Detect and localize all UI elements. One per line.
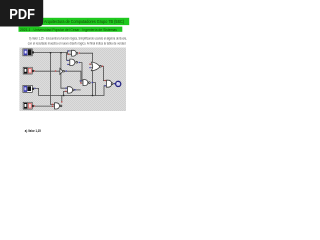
page background (0, 0, 149, 198)
wire U1 input pin fork (68, 51, 72, 54)
wire V1 bus from W1 down to gate U6 top input (50, 53, 54, 105)
not gate U3 (60, 68, 65, 74)
wire riser from net to U4 bottom input (91, 68, 94, 96)
pin state ticks U6 (52, 104, 53, 105)
wire U1 output to U4 top input (80, 53, 93, 64)
pin state ticks U4 inputs (89, 64, 90, 65)
green title bar 1 (19, 18, 130, 25)
wire W1 from input IN1 (34, 52, 68, 54)
pin state tick U3 input (55, 70, 56, 71)
pin state ticks U7 inputs (80, 80, 81, 81)
wire U3 output to U7 bottom input (64, 71, 83, 83)
wire U2 output to U7 top input (80, 63, 82, 81)
nand gate U8 final (106, 80, 115, 87)
wire V2 bus from W1 down to gate U5 top input (61, 53, 68, 89)
svg-text:b) Valor 1,25 - Encuentra la f: b) Valor 1,25 - Encuentra la función lóg… (29, 37, 127, 41)
pin state ticks U5 (66, 88, 67, 89)
svg-text:con el resultado muestra el nu: con el resultado muestra el nuevo diseño… (28, 41, 126, 45)
pin state ticks U8 inputs (105, 80, 106, 81)
logicstate input IN2 (23, 67, 35, 74)
junction node W1/V2 (60, 52, 61, 53)
wire W3 from input IN3 down to long net (35, 86, 107, 96)
wire W2 from input IN2 to inverter U3 (35, 70, 60, 72)
wire U5 output stub (76, 89, 81, 91)
svg-text:Arquitectura de Computadores G: Arquitectura de Computadores Grupo 7B (5… (44, 19, 124, 24)
nand gate U7 (83, 80, 93, 86)
green title bar 2 (19, 27, 123, 32)
and gate U5 (68, 87, 75, 93)
wire U4 output to U8 top input (103, 66, 106, 80)
wire W4 from input IN4 to U6 bottom input (35, 105, 55, 107)
wire U2 bottom input pin stub (68, 63, 70, 65)
junction node net/U4 riser (92, 95, 93, 96)
junction node W1/V1 (50, 52, 51, 53)
svg-text:PDF: PDF (9, 7, 35, 23)
svg-text:a) Valor 1,25: a) Valor 1,25 (25, 128, 42, 133)
logicstate input IN4 (23, 102, 35, 109)
nand gate U2 (70, 59, 80, 65)
wire U7 top input pin stub (80, 80, 83, 82)
or gate U4 (91, 62, 103, 71)
junction node net/U5 stub (63, 95, 64, 96)
pin state ticks U1 inputs (68, 50, 69, 51)
wire V3 from W1 down to gate U2 top input (67, 53, 70, 61)
nand gate U1 (72, 50, 80, 56)
nand gate U6 (55, 103, 62, 109)
svg-text:2021-1 - Universidad Popular d: 2021-1 - Universidad Popular del Cesar -… (20, 27, 117, 32)
logicstate input IN3 (23, 85, 36, 92)
schematic panel (19, 48, 126, 112)
wire stub from net up to U5 bottom input (64, 91, 68, 95)
wire U6 output riser to long net (61, 96, 63, 103)
pin state ticks U2 inputs (67, 60, 68, 61)
PDF badge (0, 0, 43, 27)
pin state tick U3 output (66, 70, 67, 71)
wire U4 top pin stub (90, 63, 92, 65)
wire U7 output corner down to long net (93, 83, 96, 96)
logicprobe output node (116, 81, 121, 86)
logicstate input IN1 (23, 49, 34, 56)
wire U8 output to probe (113, 83, 115, 85)
